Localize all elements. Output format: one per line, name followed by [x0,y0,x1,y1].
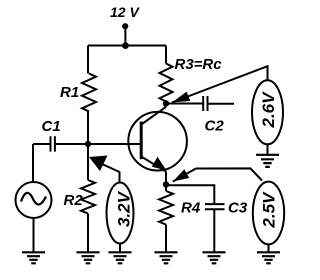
arrowhead pointing at collector node from 2.6V bubble [172,92,190,103]
wire 2.6V pointer shaft [172,66,268,102]
svg-text:2.5V: 2.5V [260,191,279,229]
svg-text:R1: R1 [60,84,79,101]
wire base node to R2 top [87,144,89,180]
arrowhead emitter arrow of Q1 [152,157,167,171]
svg-text:R4: R4 [181,200,201,217]
resistor R3 [160,64,173,102]
ground below ac source [22,252,45,263]
wire C2 right lead output [208,103,234,105]
oval callout 2.5V [253,182,284,245]
wire C1 left lead [33,143,50,145]
svg-text:3.2V: 3.2V [115,190,134,227]
svg-text:C3: C3 [228,200,248,217]
wire C1 right lead to base node [56,143,88,145]
node base junction dot [85,141,91,147]
transistor Q1 body circle [128,112,187,171]
wire collector node to C2 [166,103,203,105]
wire base lead [88,143,140,145]
wire source top lead [32,144,34,182]
wire rail to R3 top [165,46,167,64]
svg-text:R3=Rc: R3=Rc [175,56,223,73]
wire 2.5V pointer shaft [173,168,262,181]
svg-text:C2: C2 [205,118,225,135]
capacitor C2 [203,96,207,111]
transistor Q1 collector lead [142,107,166,124]
svg-text:2.6V: 2.6V [259,91,278,129]
arrowhead pointing at emitter node from 2.5V bubble [173,169,189,181]
transistor Q1 emitter lead [142,157,166,172]
svg-text:R2: R2 [64,192,84,209]
resistor R1 [82,74,96,112]
wire rail to R1 top [87,46,89,74]
ac source V1 [16,182,52,218]
oval callout 2.6V [252,80,283,144]
wire R4 bottom to ground [165,225,167,253]
wire 3.2V oval to ground [119,244,121,253]
wire 3.2V pointer shaft [102,164,120,183]
ground below R2 [77,252,100,263]
transistor Q1 base bar [140,122,143,160]
ground below C3 [203,252,226,263]
svg-text:C1: C1 [42,118,61,135]
wire supply drop from 12V terminal to rail [124,26,126,46]
wire R1 bottom to base node [87,112,89,145]
node collector junction dot [163,100,169,106]
wire 2.5V oval to ground [268,244,270,252]
wire R3 bottom to collector node [165,102,167,107]
ground below R4 [155,252,178,263]
node supply terminal dot [122,23,128,29]
svg-text:12 V: 12 V [110,4,140,20]
wire emitter to emitter node [165,172,167,192]
wire C3 bottom to ground [213,210,215,252]
resistor R2 [81,180,95,214]
wire emitter node to C3 [166,185,214,203]
node rail junction dot [122,42,129,49]
wire R2 bottom to ground [87,214,89,253]
arrowhead pointing at base node from 3.2V bubble [89,156,108,172]
wire top supply rail [88,45,166,47]
ground below 2.5V oval [257,252,280,263]
oval callout 3.2V [107,183,134,244]
ground below 2.6V oval [256,155,279,167]
wire source bottom lead [33,218,35,252]
capacitor C3 [205,204,225,209]
node emitter junction dot [163,181,169,187]
capacitor C1 [51,136,55,151]
ground below 3.2V oval [109,252,132,263]
wire 2.6V oval to ground [267,144,269,154]
resistor R4 [159,191,173,225]
